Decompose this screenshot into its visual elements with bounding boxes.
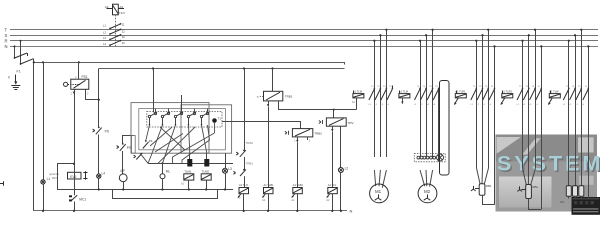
RB1 fan symbol <box>471 186 479 191</box>
svg-text:PS: PS <box>105 129 109 133</box>
TRB1 stub arrow <box>267 104 269 106</box>
heater element 2 <box>423 156 429 159</box>
relay TRB1 <box>264 91 283 101</box>
left margin tick <box>0 181 4 185</box>
relay TRV <box>326 118 346 126</box>
svg-text:EV1: EV1 <box>70 175 77 179</box>
G5 coil stub arrow <box>548 98 552 105</box>
junction N/TLO <box>243 210 245 212</box>
left long vertical (phase feed) <box>33 59 35 211</box>
coil TLO (bottom) <box>239 188 249 194</box>
G4 neutral tap <box>541 46 543 209</box>
strip feed vertical 2 <box>181 95 183 109</box>
lamp ML stub <box>162 163 164 173</box>
svg-text:W1: W1 <box>560 200 565 204</box>
branch TLO vertical <box>244 69 246 151</box>
L2 to N <box>340 173 342 211</box>
svg-text:TRB1: TRB1 <box>285 95 293 99</box>
strip to TRB2 wire <box>222 122 301 129</box>
heater RB2 funnel <box>523 168 536 185</box>
lamp L1 to N wire <box>43 184 45 211</box>
coil TLV <box>328 188 338 194</box>
TLV coil arrow <box>326 194 329 198</box>
G3 phase tap T <box>488 30 490 168</box>
G4 phase tap S <box>528 35 530 168</box>
junction C/TLM1 <box>188 188 190 190</box>
junction C/TLM2 <box>205 188 207 190</box>
crossed terminal <box>437 154 444 161</box>
logo triangle left <box>497 137 522 154</box>
bus line S <box>10 35 598 37</box>
dark footer texture rows <box>573 198 600 199</box>
G4 coil stub arrow <box>501 98 505 105</box>
junction C/L3 <box>224 188 226 190</box>
junction W/TRV <box>333 109 335 111</box>
wire strip to button 1 <box>189 125 190 153</box>
TRV stub arrow <box>331 129 333 131</box>
TRB1 bottom left stub <box>268 101 270 106</box>
G3 coil stub arrow <box>454 98 458 105</box>
junction A/PS1 branch <box>78 61 80 63</box>
svg-text:A1 TLM: A1 TLM <box>353 90 362 94</box>
G1 coil A2 wire <box>356 98 358 110</box>
WATERMARK <box>496 135 600 215</box>
svg-text:F1: F1 <box>17 70 21 74</box>
PS1 bottom left wire <box>74 89 76 164</box>
lamp L4 to line C <box>98 178 100 189</box>
pressure switch PS1 <box>64 79 89 89</box>
G2 stub arrow <box>401 102 403 104</box>
mid vertical TLO branch <box>244 157 246 170</box>
breaker F1 tap from R <box>20 41 22 64</box>
G1 phase tap S <box>380 35 382 157</box>
wire mesh diag d <box>160 127 185 150</box>
TLO coil arrow <box>238 194 241 198</box>
strip contact 3 <box>174 109 183 126</box>
svg-text:A1 TLR1: A1 TLR1 <box>455 90 466 94</box>
coil TLO (main switch coil) <box>107 4 125 15</box>
junction N/L1 <box>42 210 44 212</box>
svg-text:L3: L3 <box>228 167 232 171</box>
G4 phase tap R <box>522 41 524 168</box>
G2 phase tap T <box>432 30 434 157</box>
contactor coil G5 <box>549 91 560 98</box>
watermark base panel <box>496 135 598 212</box>
valve EV1 <box>68 172 82 179</box>
bus line R <box>10 40 598 42</box>
svg-text:L1: L1 <box>47 177 51 181</box>
logo square <box>578 137 594 152</box>
fuse tails <box>569 196 582 198</box>
TRB2 stub arrow <box>296 140 298 142</box>
svg-text:×: × <box>257 95 259 99</box>
TLM1 to line C <box>188 180 190 189</box>
motor M1 funnel <box>374 170 386 188</box>
heater RB2 <box>526 185 532 199</box>
TLM2 to line C <box>206 180 208 189</box>
enclosure box left <box>131 103 209 154</box>
lamp L4 <box>97 174 101 178</box>
svg-text:RB1: RB1 <box>486 184 492 188</box>
RB2 fan symbol <box>517 186 525 191</box>
svg-text:A1 TLB2: A1 TLB2 <box>293 183 304 187</box>
TRB1 top wire <box>272 69 274 92</box>
G3 contact blades <box>471 88 496 101</box>
TRB1 bottom right wire W <box>279 101 357 110</box>
svg-text:A1 TLO: A1 TLO <box>239 183 248 187</box>
G5 phase tap R <box>568 41 570 186</box>
TLB2 coil to N <box>297 194 299 211</box>
G1 phase tap T <box>386 30 388 157</box>
ground symbol <box>11 75 20 90</box>
main switch contact pole 3 <box>109 34 121 40</box>
strip contact digits <box>155 110 209 112</box>
contact MC1 <box>69 195 77 201</box>
fuse 2 <box>573 186 578 197</box>
control line A <box>34 62 345 64</box>
contactor coil G2 <box>399 91 410 98</box>
junction N/TLB2 <box>296 210 298 212</box>
TLB2 coil wire down <box>297 142 299 187</box>
wire mesh diag e <box>150 127 172 146</box>
strip contact 5 <box>200 109 209 126</box>
TRB2 bottom right stub <box>307 137 309 140</box>
junction B/TLO branch <box>243 67 245 69</box>
G5 neutral tap <box>588 46 590 198</box>
heater element 3 <box>430 156 436 159</box>
EV1 to MC1 wire <box>74 164 76 195</box>
inner enclosure box <box>139 109 226 150</box>
relay TRB2 <box>292 129 312 137</box>
lamp L3 <box>223 168 228 173</box>
G1 phase tap R <box>374 41 376 157</box>
svg-text:SYSTEM: SYSTEM <box>497 152 600 176</box>
motor M1 <box>370 184 389 203</box>
svg-text:RB2: RB2 <box>532 185 538 189</box>
junction B/TRB1 branch <box>271 67 273 69</box>
junction N/L2 <box>340 210 342 212</box>
coil feed rail <box>148 163 233 165</box>
TRV bottom right stub <box>340 126 342 167</box>
TRB1 coil wire down <box>268 107 270 188</box>
svg-text:R: R <box>5 38 8 43</box>
strip contact 4 <box>187 109 196 126</box>
svg-text:A1 TLB1: A1 TLB1 <box>264 183 275 187</box>
wire mesh diag i <box>155 134 183 153</box>
right end stub of line A <box>344 62 346 64</box>
svg-text:N: N <box>5 44 8 49</box>
breaker F1 blade 1 <box>14 53 28 59</box>
contact TRS2 <box>236 150 246 157</box>
strip feed vertical <box>153 69 155 113</box>
G5 contact blades <box>563 88 589 101</box>
contact P4 <box>143 140 149 148</box>
wire strip to button 2 <box>202 125 207 153</box>
breaker F1 blade 2 <box>20 59 34 65</box>
resistor column <box>440 81 450 176</box>
wire PS to lamp L4 <box>98 135 100 175</box>
junction C/MF <box>122 188 124 190</box>
svg-text:TRB2: TRB2 <box>314 132 322 136</box>
PS1 bottom right wire <box>86 89 99 99</box>
fuse 3 <box>579 186 584 197</box>
TLV coil wire down <box>332 132 334 188</box>
heater terminal box <box>414 153 445 161</box>
wire mesh diag j <box>182 125 210 164</box>
svg-text:MF: MF <box>121 169 126 173</box>
fan motor MF circle <box>119 174 127 182</box>
EV1 actuator symbol <box>83 171 87 180</box>
button PL1 <box>187 153 192 166</box>
G3 phase tap R <box>476 41 478 168</box>
junction C/ML <box>161 188 163 190</box>
heater RB1 <box>479 184 485 195</box>
ML to line C <box>162 179 164 190</box>
node T1 <box>212 118 217 123</box>
svg-text:A2: A2 <box>105 5 109 9</box>
svg-text:ML: ML <box>166 169 171 173</box>
main switch contact pole 1 <box>109 23 121 29</box>
TRB1 left lead <box>260 96 264 98</box>
control line B <box>99 68 345 70</box>
junction rail/ML <box>162 162 164 164</box>
lamp L1 <box>41 180 45 184</box>
TLO coil feed <box>244 176 246 187</box>
contact PS upper <box>93 127 102 135</box>
G4 phase tap T <box>535 30 537 168</box>
lamp L3 feed <box>225 153 227 168</box>
strip contact 1 <box>148 109 157 126</box>
G2 phase tap S <box>426 35 428 157</box>
svg-text:TLM1: TLM1 <box>184 170 192 174</box>
TLB1 coil arrow <box>262 194 265 198</box>
TRV bottom left stub <box>332 126 334 131</box>
G2 phase tap R <box>420 41 422 157</box>
lamp L2 <box>338 168 343 173</box>
svg-text:TRV: TRV <box>348 121 354 125</box>
RB2 neutral return <box>529 199 542 210</box>
svg-text:A1 TLW: A1 TLW <box>549 90 559 94</box>
G2 coil A2 stub <box>402 98 404 104</box>
coil TLB2 <box>293 188 303 194</box>
svg-text:PS: PS <box>127 146 131 150</box>
watermark top band <box>496 135 598 162</box>
logo triangle middle <box>522 138 541 154</box>
TLB1 coil to N <box>268 194 270 211</box>
L3 to line C <box>225 173 227 189</box>
contactor coil G4 <box>502 91 513 98</box>
PS1 top terminal wire <box>78 62 80 79</box>
lamp ML <box>160 174 165 179</box>
TRV top wire <box>333 110 335 118</box>
junction PS1/line-B vertical <box>98 99 100 101</box>
coil TLM2 <box>201 174 211 180</box>
junction N/TLB1 <box>267 210 269 212</box>
motor M2 funnel <box>420 170 433 187</box>
G2 contact blades <box>415 88 440 101</box>
dark footer block <box>572 197 600 215</box>
junction N/MC1 <box>73 210 75 212</box>
svg-text:M2: M2 <box>424 189 431 194</box>
tab wire to contact P3 <box>123 136 134 144</box>
wire mesh diag h <box>173 133 215 163</box>
wire P3 to fan MF <box>122 151 124 174</box>
TLV coil to N <box>332 194 334 211</box>
dashed link TLO to contacts <box>115 15 117 46</box>
svg-text:TRB1: TRB1 <box>246 161 254 165</box>
svg-text:TLM2: TLM2 <box>202 170 210 174</box>
wire strip diag b <box>148 125 163 163</box>
svg-text:S: S <box>5 33 8 38</box>
G2 pole 4 wire <box>438 88 440 162</box>
PS1 arrow mark <box>73 92 76 95</box>
contact P2 <box>134 153 143 160</box>
heater RB1 funnel <box>477 168 489 184</box>
bottom N return line <box>34 210 347 212</box>
junction B/strip branch <box>152 67 154 69</box>
wire P2 exit <box>140 153 148 163</box>
TLB2 coil arrow <box>291 194 294 198</box>
svg-text:P4: P4 <box>149 139 153 143</box>
junction EV1 loop <box>73 163 75 165</box>
fuse 1 <box>566 186 571 197</box>
G3 neutral tap <box>494 46 496 205</box>
contact TRB1 <box>233 169 246 176</box>
enclosure side tab <box>132 136 136 154</box>
line C (lamp return) <box>57 189 233 191</box>
MF to line C <box>123 182 125 190</box>
G5 phase tap S <box>575 35 577 186</box>
RB1 neutral return <box>483 195 495 204</box>
svg-text:003: 003 <box>52 176 57 180</box>
contactor coil TLM (G1) <box>353 91 364 98</box>
svg-text:A1 TLV: A1 TLV <box>328 183 337 187</box>
enclosure box right <box>181 105 232 153</box>
heater element 1 <box>417 156 423 159</box>
branch vertical to lamp L1 <box>43 62 45 180</box>
wire strip to P4 <box>146 125 150 141</box>
svg-text:L2: L2 <box>345 166 349 170</box>
svg-text:M1: M1 <box>375 189 382 194</box>
svg-text:A1: A1 <box>120 5 124 9</box>
svg-text:T: T <box>5 27 8 32</box>
TRB2 left mark <box>285 131 289 135</box>
G1 contact blades <box>369 86 393 101</box>
junction N/TLV <box>331 210 333 212</box>
line B corner vertical <box>98 69 100 128</box>
TRB2 bottom left stub <box>297 137 299 142</box>
svg-text:0: 0 <box>8 76 10 80</box>
svg-text:A1 TLM: A1 TLM <box>399 90 408 94</box>
svg-text:TLO: TLO <box>119 11 126 15</box>
svg-text:A1 TLR2: A1 TLR2 <box>502 90 513 94</box>
wire strip diag c <box>163 125 176 163</box>
svg-text:TRS2: TRS2 <box>246 141 254 145</box>
svg-text:PS1: PS1 <box>82 75 88 79</box>
U link wire <box>113 190 218 199</box>
watermark small light square right <box>579 176 594 185</box>
TRV left mark <box>319 120 323 124</box>
breaker F1 tap from N <box>14 46 16 58</box>
G4 contact blades <box>517 88 542 101</box>
coil TLM1 <box>184 174 194 180</box>
wire mesh diag g <box>214 123 216 133</box>
svg-text:MC1: MC1 <box>79 197 86 201</box>
G5 phase tap T <box>581 30 583 186</box>
TLO coil to N <box>243 194 245 211</box>
strip contact 2 <box>161 109 170 126</box>
wire mesh diag f <box>158 127 195 163</box>
bus line N <box>10 46 598 48</box>
main switch contact pole 4 <box>109 40 121 46</box>
bus line T <box>10 29 598 31</box>
junction A/L1 branch <box>42 61 44 63</box>
main switch contact pole 2 <box>109 29 121 35</box>
svg-text:T1: T1 <box>218 116 222 120</box>
button PL2 <box>204 153 209 166</box>
motor M2 <box>418 184 437 203</box>
junction A/feed <box>33 61 35 63</box>
terminal strip box <box>147 112 222 128</box>
G3 phase tap S <box>482 35 484 168</box>
svg-text:N: N <box>350 209 353 214</box>
coil TLB1 <box>264 188 274 194</box>
MC1 to N wire <box>74 202 76 211</box>
EV1 loop wire <box>58 164 75 190</box>
junction C/L4 <box>98 188 100 190</box>
contactor coil G3 <box>455 91 466 98</box>
svg-text:L4: L4 <box>102 171 106 175</box>
contact P3 <box>117 143 126 151</box>
